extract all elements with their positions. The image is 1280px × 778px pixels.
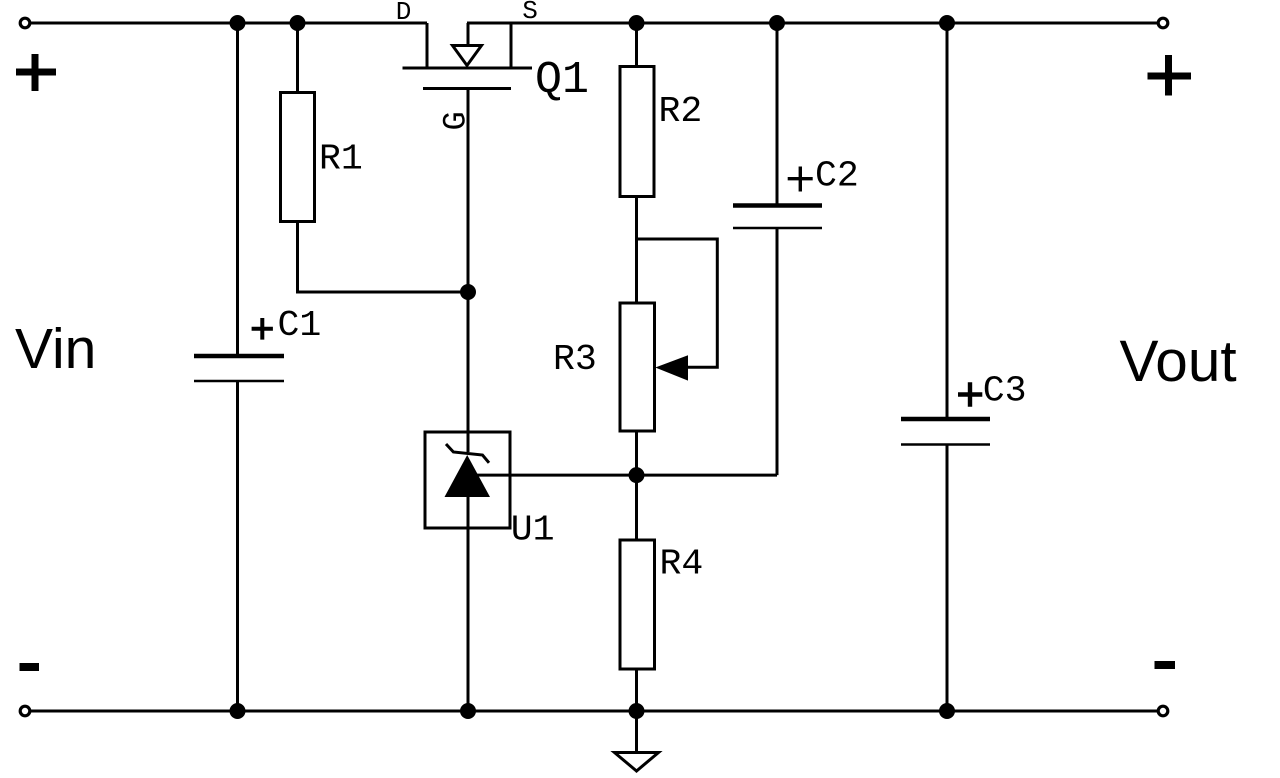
resistor R2	[620, 67, 654, 197]
svg-text:Vout: Vout	[1120, 329, 1237, 394]
wire R4 bottom	[635, 669, 638, 711]
terminal Vin -	[20, 706, 30, 716]
potentiometer R3	[620, 303, 688, 431]
junction R2 / top rail	[629, 15, 645, 31]
label + (C2 polarity)	[788, 167, 813, 192]
wire top rail right (Q1 source to Vout+)	[467, 22, 1158, 25]
svg-text:Q1: Q1	[535, 55, 589, 106]
label - (output negative)	[1155, 661, 1176, 669]
capacitor C1	[194, 356, 284, 381]
junction C1 / top rail	[230, 15, 246, 31]
wire R1 top	[296, 23, 299, 93]
wire R2 top	[635, 23, 638, 67]
wire gate (Q1 G to U1 cathode)	[467, 90, 470, 452]
terminal Vout -	[1158, 706, 1168, 716]
svg-text:C1: C1	[278, 305, 322, 346]
wire R1 bottom to gate node	[298, 222, 469, 293]
label + (C1 polarity)	[252, 318, 273, 340]
svg-text:C3: C3	[983, 370, 1027, 411]
svg-text:S: S	[522, 0, 538, 26]
junction feedback node (R3/R4/U1/C2)	[629, 467, 645, 483]
resistor R4	[620, 540, 655, 669]
junction R4 / bottom rail	[629, 703, 645, 719]
wire top rail left (Vin+ to Q1 drain)	[30, 22, 427, 25]
ground	[615, 753, 659, 772]
wire R2 to R3	[635, 197, 638, 304]
wire bottom rail (Vin- to Vout-)	[30, 710, 1158, 713]
svg-text:D: D	[396, 0, 412, 27]
label + (C3 polarity)	[958, 382, 982, 406]
svg-text:C2: C2	[815, 156, 859, 197]
wire C3 bottom	[946, 445, 949, 712]
svg-text:R2: R2	[659, 91, 703, 132]
wire C1 bottom	[236, 381, 239, 711]
terminal Vin +	[20, 18, 30, 28]
svg-text:Vin: Vin	[15, 317, 96, 381]
wire C3 top	[946, 23, 949, 419]
junction U1 / bottom rail	[460, 703, 476, 719]
label - (input negative)	[20, 663, 40, 671]
terminal Vout +	[1158, 18, 1168, 28]
wire wiper feedback loop	[637, 239, 718, 367]
wire C2 bottom lead to REF node	[776, 228, 779, 475]
label + (output positive)	[1148, 55, 1192, 96]
capacitor C3	[901, 419, 990, 445]
wire C2 top	[776, 23, 779, 206]
wire U1 REF to feedback node to C2	[470, 474, 777, 477]
junction C3 / top rail	[939, 15, 955, 31]
junction gate / R1 node	[460, 284, 476, 300]
transistor Q1 (P-MOSFET)	[403, 23, 533, 89]
wire C1 top	[236, 23, 239, 356]
junction R1 / top rail	[290, 15, 306, 31]
label + (input positive)	[16, 54, 56, 91]
capacitor C2	[733, 206, 822, 229]
svg-text:R3: R3	[553, 339, 597, 380]
wire R4 top	[635, 475, 638, 540]
svg-text:R4: R4	[660, 543, 704, 584]
wire U1 anode to bottom rail	[467, 497, 470, 711]
resistor R1	[281, 93, 315, 222]
junction C3 / bottom rail	[939, 703, 955, 719]
svg-text:U1: U1	[511, 510, 555, 551]
wire R3 bottom	[635, 431, 638, 475]
junction C1 / bottom rail	[230, 703, 246, 719]
junction C2 / top rail	[769, 15, 785, 31]
shunt regulator U1 (TL431)	[425, 432, 510, 528]
wire ground lead	[635, 711, 638, 753]
svg-text:R1: R1	[319, 138, 363, 179]
